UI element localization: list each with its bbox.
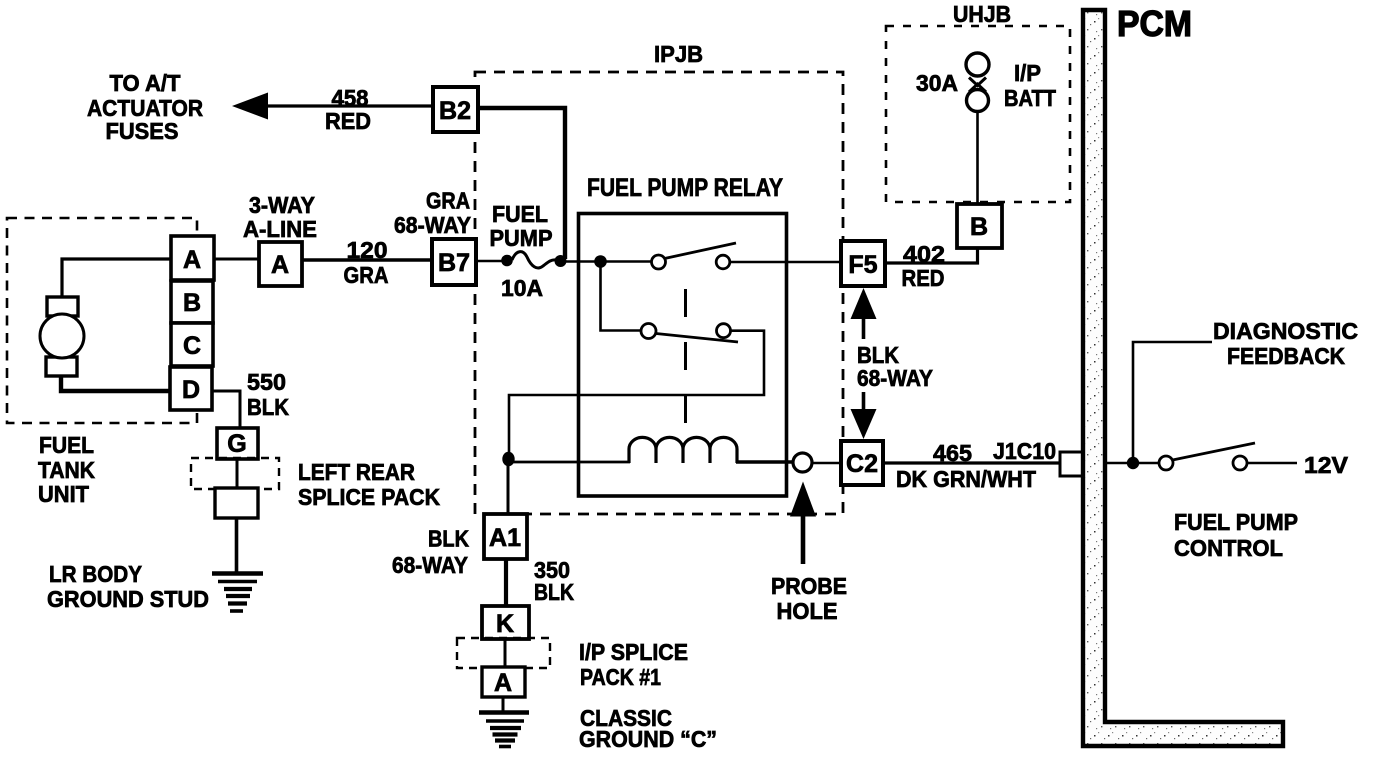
svg-text:BLK: BLK: [428, 526, 469, 552]
label LR BODY GROUND STUD: [47, 561, 209, 612]
svg-text:CONTROL: CONTROL: [1174, 535, 1283, 561]
svg-text:GRA: GRA: [344, 262, 389, 288]
svg-text:A1: A1: [489, 524, 521, 552]
relay switch arm 2: [656, 334, 738, 343]
svg-text:FEEDBACK: FEEDBACK: [1227, 343, 1345, 369]
label BLK 68-WAY: [857, 342, 933, 391]
relay coil L1: [629, 437, 737, 463]
label DIAGNOSTIC FEEDBACK: [1213, 318, 1358, 369]
wire probe hole to C2: [812, 462, 841, 465]
svg-text:GROUND “C”: GROUND “C”: [579, 726, 717, 752]
wire B7 to fuse: [476, 260, 507, 263]
svg-text:F5: F5: [848, 251, 877, 279]
connector C2: [841, 441, 883, 485]
wire A1 to K: [504, 559, 508, 606]
label I/P SPLICE PACK #1: [579, 639, 688, 690]
IPJB dashed box: [475, 72, 843, 514]
label FUEL PUMP: [490, 201, 553, 251]
svg-text:FUEL: FUEL: [492, 201, 548, 227]
wire K to A: [504, 639, 507, 667]
svg-text:C: C: [183, 332, 201, 360]
connector stack pin B: [171, 281, 213, 323]
svg-text:B7: B7: [438, 249, 470, 277]
svg-text:B2: B2: [439, 97, 471, 125]
svg-text:PCM: PCM: [1117, 3, 1192, 44]
svg-text:UNIT: UNIT: [38, 481, 89, 507]
left rear splice pack dashed box: [191, 458, 279, 489]
label 402 RED: [902, 241, 946, 291]
wire stack A to 3-way connector: [214, 258, 259, 261]
label FUEL PUMP CONTROL: [1174, 509, 1298, 561]
connector B: [957, 204, 1002, 248]
connector A (splice): [482, 667, 525, 697]
svg-text:I/P: I/P: [1014, 60, 1041, 86]
svg-text:LEFT REAR: LEFT REAR: [298, 459, 415, 485]
wire coil to probe hole: [736, 460, 793, 463]
wire splice to ground: [235, 518, 239, 573]
svg-text:LR BODY: LR BODY: [49, 561, 142, 587]
wire to 12V: [1247, 462, 1297, 465]
fuse 30A symbol: [966, 53, 989, 112]
I/P splice pack dashed box: [457, 638, 550, 668]
switch contact left: [1159, 456, 1173, 470]
wire motor top to pin A: [62, 259, 171, 298]
label 465 J1C10: [933, 438, 1056, 466]
wire diagnostic feedback: [1133, 342, 1212, 463]
svg-text:PACK #1: PACK #1: [580, 664, 661, 690]
svg-text:RED: RED: [325, 108, 371, 134]
wire D to G: [212, 391, 240, 428]
label I/P BATT: [1004, 60, 1056, 111]
fuse terminal dot right: [555, 255, 567, 267]
svg-text:68-WAY: 68-WAY: [394, 212, 471, 238]
wire junction to A1: [507, 462, 510, 514]
svg-text:GRA: GRA: [426, 188, 470, 214]
connector B2: [433, 87, 478, 132]
probe hole terminal: [793, 453, 812, 472]
connector stack pin D: [170, 367, 212, 410]
label TO A/T ACTUATOR FUSES: [87, 70, 203, 144]
junction node diagnostic: [1127, 457, 1139, 469]
svg-text:30A: 30A: [916, 70, 958, 96]
wire F5 to B: [885, 248, 978, 263]
switch contact right: [1233, 456, 1247, 470]
svg-text:RED: RED: [902, 265, 945, 291]
connector stack pin A: [171, 236, 214, 280]
svg-text:C2: C2: [846, 450, 878, 478]
fuel pump motor: [40, 297, 84, 376]
probe hole arrow: [790, 482, 816, 565]
svg-text:B: B: [970, 213, 988, 241]
label LEFT REAR SPLICE PACK: [298, 459, 440, 510]
svg-text:A: A: [494, 669, 512, 697]
ground classic ground C: [479, 713, 529, 747]
connector 3-way A: [259, 242, 302, 286]
svg-text:DK GRN/WHT: DK GRN/WHT: [896, 466, 1036, 492]
wire B2 to junction (thick drop): [478, 108, 565, 259]
svg-text:A: A: [183, 246, 201, 274]
svg-text:SPLICE PACK: SPLICE PACK: [298, 484, 440, 510]
svg-text:DIAGNOSTIC: DIAGNOSTIC: [1213, 318, 1358, 344]
wire 120 GRA: [302, 258, 432, 261]
wire contact2 to coil node: [509, 331, 764, 453]
relay box: [579, 214, 787, 497]
svg-text:BLK: BLK: [247, 394, 289, 420]
svg-text:K: K: [496, 610, 514, 638]
connector stack pin C: [171, 323, 213, 366]
wire fuse to relay contact: [560, 260, 652, 263]
connector G: [217, 428, 258, 459]
label 350 BLK: [534, 557, 574, 605]
label 458 RED: [325, 85, 371, 134]
svg-text:BATT: BATT: [1004, 85, 1056, 111]
svg-text:A-LINE: A-LINE: [243, 216, 317, 242]
connector B7: [432, 239, 476, 285]
svg-text:FUEL PUMP RELAY: FUEL PUMP RELAY: [587, 174, 783, 202]
arrow to A/T actuator fuses: [232, 93, 268, 120]
svg-text:A: A: [271, 251, 289, 279]
label 550 BLK: [247, 369, 289, 420]
svg-text:3-WAY: 3-WAY: [249, 192, 315, 218]
svg-text:I/P SPLICE: I/P SPLICE: [579, 639, 688, 665]
svg-text:UHJB: UHJB: [953, 1, 1011, 27]
wire 458 RED: [264, 104, 432, 107]
label FUEL TANK UNIT: [38, 432, 95, 507]
svg-text:402: 402: [903, 241, 945, 267]
label GRA 68-WAY: [394, 188, 471, 239]
wire A to classic ground: [502, 697, 505, 712]
svg-text:HOLE: HOLE: [777, 598, 838, 624]
svg-text:GROUND STUD: GROUND STUD: [47, 586, 209, 612]
wire contact1 to F5: [730, 261, 841, 263]
svg-text:120: 120: [347, 237, 388, 263]
wire junction to coil: [509, 461, 630, 464]
wire fuse to B connector: [976, 112, 979, 204]
relay contact 2 right terminal: [717, 324, 731, 338]
svg-text:FUEL: FUEL: [39, 432, 94, 458]
wire junction down to contact 2: [601, 262, 642, 331]
label 3-WAY A-LINE: [243, 192, 317, 242]
UHJB dashed box: [886, 26, 1070, 202]
label PROBE HOLE: [771, 573, 847, 624]
splice box (blank): [215, 488, 258, 518]
wire G to splice box: [236, 459, 239, 488]
label 120 GRA: [344, 237, 389, 288]
relay mechanical link dashed: [684, 289, 687, 443]
junction node in relay top: [594, 255, 607, 268]
fuse terminal dot left: [501, 255, 513, 267]
svg-text:12V: 12V: [1304, 452, 1349, 478]
relay contact 1 left terminal: [652, 255, 666, 269]
relay switch arm 1: [665, 243, 737, 259]
PCM body: [1083, 10, 1283, 746]
label BLK 68-WAY: [392, 526, 469, 579]
svg-text:PUMP: PUMP: [490, 225, 553, 251]
wire into PCM switch: [1106, 462, 1159, 465]
svg-text:550: 550: [247, 369, 286, 395]
svg-text:IPJB: IPJB: [654, 41, 703, 67]
arrow down to C2 (68-way connector): [851, 392, 877, 439]
switch arm: [1173, 443, 1256, 460]
fuse element squiggle: [512, 252, 556, 268]
connector K: [482, 606, 529, 639]
junction node coil left: [502, 452, 514, 466]
svg-text:465: 465: [933, 440, 972, 466]
PCM connector notch: [1060, 452, 1084, 476]
svg-text:PROBE: PROBE: [771, 573, 847, 599]
label CLASSIC GROUND C: [579, 705, 717, 752]
svg-text:G: G: [227, 430, 246, 458]
svg-text:FUEL PUMP: FUEL PUMP: [1174, 509, 1298, 535]
fuel tank unit dashed box: [7, 218, 197, 423]
svg-text:68-WAY: 68-WAY: [392, 552, 468, 578]
svg-text:D: D: [182, 376, 200, 404]
svg-text:TANK: TANK: [38, 457, 95, 483]
connector F5: [841, 241, 885, 286]
relay contact 1 right terminal: [716, 255, 730, 269]
svg-text:J1C10: J1C10: [993, 438, 1056, 464]
ground LR body ground stud: [212, 574, 263, 612]
relay contact 2 left terminal: [641, 324, 656, 339]
arrow up to F5 (68-way connector): [851, 288, 877, 339]
svg-text:BLK: BLK: [534, 579, 574, 605]
wire motor bottom to pin D: [61, 375, 170, 391]
connector A1: [484, 514, 527, 559]
svg-text:TO A/T: TO A/T: [110, 70, 181, 96]
wire C2 to PCM: [883, 461, 1060, 464]
svg-text:68-WAY: 68-WAY: [857, 365, 933, 391]
svg-text:10A: 10A: [501, 275, 543, 301]
svg-text:B: B: [183, 289, 201, 317]
svg-text:FUSES: FUSES: [106, 118, 179, 144]
